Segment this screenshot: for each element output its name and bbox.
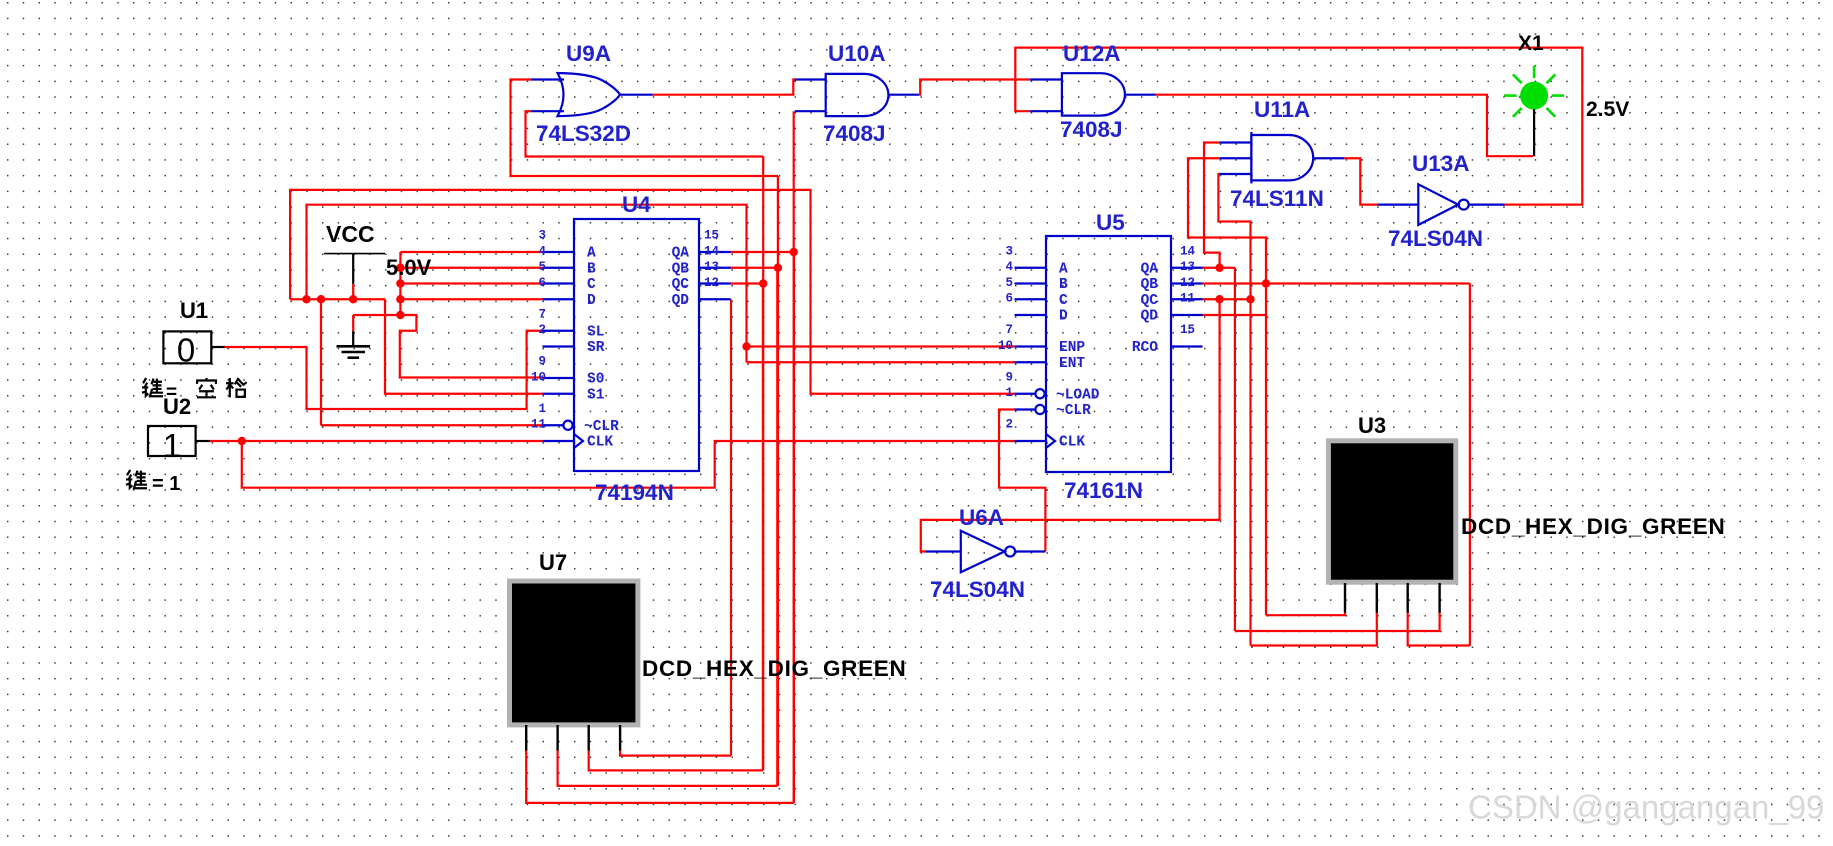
wire U7 pin2 wire — [558, 750, 778, 786]
wire U5 QD row — [1203, 314, 1267, 316]
svg-text:QD: QD — [1141, 309, 1159, 325]
wire U11A input C from U5 QC — [1218, 174, 1250, 646]
display U7 DCD_HEX_DIG_GREEN — [510, 581, 638, 725]
OR gate U9A 74LS32D — [558, 73, 621, 116]
wire U5 ENP wire — [747, 345, 1015, 347]
U5 pin ~CLR stub — [1015, 408, 1036, 410]
switch U2 box — [148, 426, 196, 456]
wire U7 pin4 wire — [620, 750, 731, 756]
svg-text:U4: U4 — [622, 192, 651, 217]
U1 key caption (jian = space) — [142, 378, 148, 396]
svg-text:74LS32D: 74LS32D — [536, 121, 631, 146]
wire U7 pin1 net vertical — [793, 252, 795, 803]
U4 pin QA stub — [699, 251, 731, 253]
svg-text:~CLR: ~CLR — [1056, 403, 1091, 419]
wire U10A out to U12A input A — [919, 80, 1030, 95]
wire U1 to U4 SL — [224, 331, 543, 409]
wire U5 QB row long wire — [1203, 282, 1470, 284]
svg-text:RCO: RCO — [1132, 340, 1158, 356]
junction ABCD tie D row — [396, 295, 404, 303]
svg-text:CLK: CLK — [587, 435, 613, 451]
wire U4 D row right segment — [400, 298, 542, 300]
svg-text:QA: QA — [1141, 261, 1159, 277]
svg-text:12: 12 — [1180, 276, 1195, 290]
svg-text:ENP: ENP — [1059, 340, 1085, 356]
svg-text:3: 3 — [538, 229, 546, 243]
svg-text:6: 6 — [1005, 292, 1013, 306]
svg-text:CLK: CLK — [1059, 435, 1085, 451]
svg-text:7: 7 — [1005, 323, 1013, 337]
IC U4 74194N body — [574, 219, 699, 471]
svg-text:14: 14 — [1180, 244, 1196, 258]
svg-text:74LS04N: 74LS04N — [1388, 226, 1483, 251]
junction ENP junction — [742, 342, 750, 350]
U5 pin C stub — [1015, 298, 1047, 300]
svg-text:11: 11 — [531, 418, 546, 432]
svg-text:QB: QB — [672, 261, 690, 277]
svg-text:U5: U5 — [1096, 210, 1125, 235]
svg-text:U1: U1 — [180, 298, 208, 323]
U4 pin CLK stub — [543, 440, 575, 442]
U4 pin QC stub — [699, 282, 731, 284]
wire U12A out to X1 lamp — [1156, 95, 1533, 157]
svg-text:B: B — [1059, 277, 1068, 293]
wire U4 QB row — [731, 267, 778, 269]
junction ENP/ENT net on D row — [302, 295, 310, 303]
wire U4 QB vertical to U9A — [777, 176, 779, 786]
junction U4 QB junction — [774, 264, 782, 272]
wire U7 pin2 net vertical — [776, 268, 778, 786]
svg-text:=: = — [166, 382, 177, 403]
svg-text:DCD_HEX_DIG_GREEN: DCD_HEX_DIG_GREEN — [642, 656, 906, 681]
U4 pin D stub — [543, 298, 575, 300]
U5 pin ~LOAD stub — [1015, 393, 1036, 395]
junction U4 QA junction — [790, 248, 798, 256]
svg-text:C: C — [587, 277, 596, 293]
wire U3 pin4 wire — [1235, 630, 1440, 632]
wire U5 QA row — [1203, 267, 1235, 269]
inverter U6A 74LS04N — [961, 531, 1005, 573]
svg-text:4: 4 — [538, 244, 546, 258]
junction U5 QA junction — [1215, 264, 1223, 272]
svg-text:C: C — [1059, 293, 1068, 309]
svg-text:11: 11 — [1180, 292, 1195, 306]
U4 pin C stub — [543, 282, 575, 284]
svg-text:D: D — [587, 293, 596, 309]
wire U3 pin1 red stub — [1344, 612, 1346, 616]
wire U4 QD vertical to U7 pin 4 — [730, 299, 732, 755]
svg-text:7408J: 7408J — [823, 121, 886, 146]
svg-text:VCC: VCC — [326, 221, 375, 247]
wire U3 pin3 wire — [1408, 644, 1470, 646]
svg-text:X1: X1 — [1518, 32, 1544, 55]
svg-text:4: 4 — [1005, 260, 1013, 274]
wire U3 pin2 red stub — [1376, 612, 1378, 647]
svg-text:B: B — [587, 261, 596, 277]
U5 pin ENT stub — [1015, 361, 1047, 363]
U5 pin CLK stub — [1015, 440, 1047, 442]
junction ABCD tie ground row — [396, 311, 404, 319]
wire U2 branch to U5 CLK — [242, 441, 1015, 488]
wire U4 A-D tie vertical — [399, 252, 401, 315]
svg-text:SR: SR — [587, 340, 605, 356]
svg-text:QA: QA — [672, 246, 690, 262]
svg-text:3: 3 — [1005, 244, 1013, 258]
wire U4 C row — [400, 282, 542, 284]
wire U3 pin1 wire — [1266, 614, 1345, 616]
svg-text:9: 9 — [538, 355, 546, 369]
svg-text:S0: S0 — [587, 372, 604, 388]
U5 pin QC stub — [1171, 298, 1203, 300]
wire U11A input A from U5 QA — [1204, 143, 1220, 268]
wire U5 QB vertical to U3 pin 3 — [1469, 284, 1471, 646]
svg-text:U3: U3 — [1358, 413, 1386, 438]
AND gate U12A 7408J — [1062, 73, 1125, 115]
AND gate U11A 74LS11N (3-input) — [1251, 135, 1313, 180]
svg-text:10: 10 — [998, 339, 1013, 353]
svg-text:0: 0 — [177, 332, 195, 369]
svg-text:74194N: 74194N — [595, 480, 674, 505]
wire U3 pin2 wire — [1251, 644, 1377, 646]
wire U5 QA vertical to U3 pin 4 — [1234, 268, 1236, 631]
svg-text:U11A: U11A — [1254, 97, 1310, 122]
svg-text:10: 10 — [531, 370, 546, 384]
wire U11A out to U13A input — [1344, 158, 1377, 204]
switch U1 box — [163, 331, 211, 363]
svg-text:ENT: ENT — [1059, 356, 1085, 372]
junction VCC stem on D row — [349, 295, 357, 303]
U4 pin S1 stub — [543, 393, 575, 395]
svg-text:1: 1 — [538, 402, 546, 416]
svg-text:15: 15 — [704, 229, 719, 243]
display U3 DCD_HEX_DIG_GREEN — [1328, 441, 1455, 582]
wire U3 pin3 red stub — [1407, 612, 1409, 647]
wire net to U5 ENP/ENT — [307, 205, 747, 363]
IC U5 74161N body — [1046, 236, 1171, 472]
svg-text:74LS11N: 74LS11N — [1230, 186, 1324, 211]
svg-text:~CLR: ~CLR — [584, 419, 619, 435]
svg-text:QC: QC — [672, 277, 690, 293]
wire U4 QA row — [731, 251, 794, 253]
junction U4 QC junction — [759, 279, 767, 287]
svg-text:U12A: U12A — [1063, 41, 1121, 66]
svg-text:15: 15 — [1180, 323, 1195, 337]
svg-text:1: 1 — [163, 427, 181, 464]
svg-text:U13A: U13A — [1412, 151, 1470, 176]
svg-text:2: 2 — [538, 323, 546, 337]
wire U4 A row — [400, 251, 542, 253]
wire U4 D row left segment — [290, 298, 385, 300]
svg-text:14: 14 — [704, 244, 720, 258]
U5 pin D stub — [1015, 314, 1047, 316]
U5 pin ENP stub — [1015, 345, 1047, 347]
junction ~CLR net on D row — [317, 295, 325, 303]
U5 pin A stub — [1015, 267, 1047, 269]
svg-text:13: 13 — [1180, 260, 1195, 274]
wire U9A out to U10A input A — [653, 80, 796, 95]
wire U7 pin3 net vertical — [762, 284, 764, 771]
U4 pin B stub — [543, 267, 575, 269]
svg-text:U9A: U9A — [566, 41, 611, 66]
wire U5 QC row — [1203, 298, 1252, 300]
wire U4 B row — [400, 267, 542, 269]
svg-text:SL: SL — [587, 324, 604, 340]
svg-text:9: 9 — [1005, 370, 1013, 384]
svg-text:5: 5 — [1005, 276, 1013, 290]
junction U5 QB junction — [1262, 279, 1270, 287]
U4 pin S0 stub — [543, 377, 575, 379]
svg-text:5: 5 — [538, 260, 546, 274]
U4 pin SR stub — [543, 345, 575, 347]
svg-text:2.5V: 2.5V — [1586, 98, 1629, 121]
wire U5 ~CLR to U6A output — [999, 410, 1045, 552]
VCC symbol — [324, 253, 385, 255]
U5 pin QB stub — [1171, 282, 1203, 284]
wire U4 QA net vertical (U10A input B to U7 pin 1) — [793, 111, 795, 803]
svg-text:QC: QC — [1141, 293, 1159, 309]
svg-text:6: 6 — [538, 276, 546, 290]
svg-text:5.0V: 5.0V — [386, 255, 432, 280]
U4 pin QD stub — [699, 298, 731, 300]
svg-text:DCD_HEX_DIG_GREEN: DCD_HEX_DIG_GREEN — [1461, 514, 1725, 539]
svg-text:QB: QB — [1141, 277, 1159, 293]
U4 pin A stub — [543, 251, 575, 253]
svg-text:= 1: = 1 — [152, 473, 180, 495]
svg-text:A: A — [587, 246, 596, 262]
wire U4 ~CLR tie vertical — [320, 299, 322, 425]
wire U4 QC row — [731, 282, 764, 284]
svg-text:~LOAD: ~LOAD — [1056, 387, 1100, 403]
inverter U13A 74LS04N — [1418, 184, 1458, 225]
wire U2 to U4 CLK — [210, 440, 543, 442]
svg-text:D: D — [1059, 309, 1068, 325]
svg-text:74161N: 74161N — [1064, 478, 1143, 503]
wire U11A input B from U5 QB/QD — [1188, 158, 1266, 615]
wire U4 QC to U9A input B — [526, 111, 764, 156]
junction U5 QC junction 1 — [1215, 295, 1223, 303]
wire net to U5 ~LOAD — [290, 190, 1014, 394]
wire U4 ~CLR wire — [321, 424, 543, 426]
junction U5 QC junction 2 — [1246, 295, 1254, 303]
U4 pin QB stub — [699, 267, 731, 269]
junction ABCD tie C row — [396, 279, 404, 287]
junction U2 branch — [238, 437, 246, 445]
svg-text:QD: QD — [672, 293, 690, 309]
U5 pin B stub — [1015, 282, 1047, 284]
U4 pin SL stub — [543, 330, 575, 332]
wire U5 QC to U6A input — [921, 299, 1220, 551]
svg-text:U7: U7 — [539, 550, 567, 575]
svg-text:U10A: U10A — [828, 41, 886, 66]
svg-text:7408J: 7408J — [1060, 117, 1123, 142]
probe X1 lamp — [1520, 82, 1548, 110]
ground symbol — [352, 315, 354, 331]
wire ground row to U4 S0 — [353, 315, 542, 378]
wire U3 pin4 red stub — [1438, 612, 1440, 632]
wire U4 QC vertical to U9A — [762, 157, 764, 771]
svg-text:U6A: U6A — [959, 505, 1004, 530]
svg-text:12: 12 — [704, 276, 719, 290]
U4 pin ~CLR stub — [543, 424, 564, 426]
svg-text:7: 7 — [538, 307, 546, 321]
wire branch to U4 S1 — [385, 299, 543, 394]
junction ABCD tie B row — [396, 264, 404, 272]
svg-text:S1: S1 — [587, 387, 605, 403]
svg-text:A: A — [1059, 261, 1068, 277]
svg-text:13: 13 — [704, 260, 719, 274]
wire U7 pin3 wire — [589, 750, 763, 770]
svg-text:1: 1 — [1005, 386, 1013, 400]
svg-text:CSDN @gangangan_99: CSDN @gangangan_99 — [1468, 789, 1824, 826]
wire U4 QB to U9A input A — [511, 80, 778, 177]
U5 pin QD stub — [1171, 314, 1203, 316]
wire U5 ENT wire — [747, 361, 1015, 363]
AND gate U10A 7408J — [826, 74, 889, 116]
wire U7 pin1 wire — [526, 750, 794, 803]
U2 key caption (jian = 1) — [126, 470, 132, 488]
svg-text:74LS04N: 74LS04N — [930, 577, 1025, 602]
U5 pin RCO stub — [1171, 345, 1203, 347]
wire U13A out to U12A input B (top net) — [1015, 48, 1582, 205]
U5 pin QA stub — [1171, 267, 1203, 269]
svg-text:2: 2 — [1005, 418, 1013, 432]
